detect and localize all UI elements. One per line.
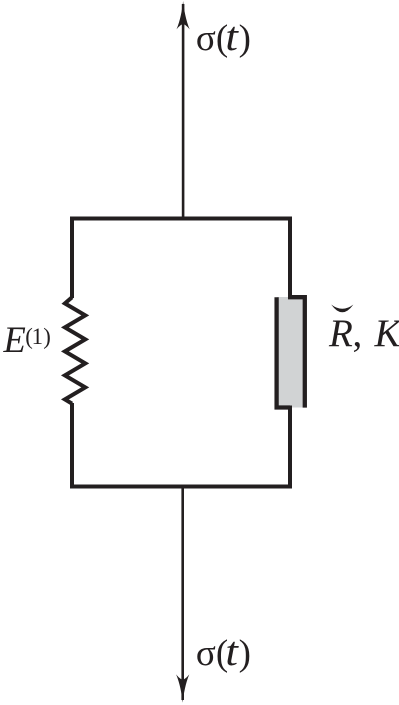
- svg-text:): ): [239, 18, 251, 59]
- svg-text:t: t: [225, 15, 239, 60]
- label sigma(t) bottom: [196, 630, 251, 675]
- wire: left branch lower segment: [70, 403, 74, 489]
- svg-text:): ): [43, 324, 51, 349]
- wire: top stress arrow shaft: [182, 4, 185, 219]
- svg-text:K: K: [374, 312, 399, 355]
- svg-text:σ: σ: [196, 633, 216, 674]
- wire: frame bottom bar: [70, 485, 292, 489]
- wire: left branch upper segment: [70, 217, 74, 299]
- friction element: top plate (hook right): [288, 297, 305, 407]
- wire: right branch lower segment: [288, 406, 292, 489]
- wire: bottom stress arrow shaft: [181, 487, 184, 701]
- breve accent over R: [331, 305, 353, 313]
- label E^(1): [3, 319, 51, 360]
- svg-text:σ: σ: [196, 18, 216, 59]
- wire: frame top bar: [70, 217, 292, 221]
- wire: right branch upper segment: [288, 217, 292, 300]
- svg-text:t: t: [225, 630, 239, 675]
- svg-text:R: R: [328, 312, 353, 355]
- label sigma(t) top: [196, 15, 251, 60]
- svg-text:,: ,: [353, 312, 363, 355]
- spring (zigzag): [65, 297, 85, 403]
- svg-text:): ): [239, 633, 251, 674]
- friction element: gray block: [277, 297, 304, 408]
- svg-text:1: 1: [32, 324, 43, 349]
- friction element: bottom plate (hook left): [277, 297, 290, 407]
- label R, K: [328, 312, 399, 355]
- svg-text:E: E: [3, 319, 26, 360]
- arrowhead bottom (sigma down): [176, 674, 189, 702]
- arrowhead top (sigma up): [177, 1, 190, 29]
